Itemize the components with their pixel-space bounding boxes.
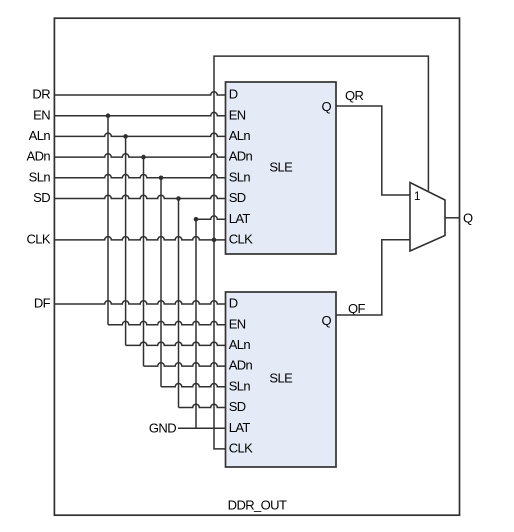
svg-text:GND: GND xyxy=(149,421,176,436)
svg-text:SLn: SLn xyxy=(29,169,51,184)
wire ADn to U2.ADn xyxy=(144,363,226,366)
wire EN to U1.EN xyxy=(54,112,225,115)
junction LAT branch xyxy=(194,217,199,222)
svg-text:EN: EN xyxy=(229,316,246,331)
svg-text:LAT: LAT xyxy=(229,420,251,435)
svg-text:D: D xyxy=(229,296,238,311)
svg-text:SLE: SLE xyxy=(269,160,293,175)
wire LAT to U1.LAT xyxy=(196,216,226,219)
wire ALn to U2.ALn xyxy=(126,342,226,345)
wire CLK vertical to U2.CLK xyxy=(214,240,226,449)
junction EN branch xyxy=(106,113,111,118)
svg-text:Q: Q xyxy=(463,210,473,225)
svg-text:SD: SD xyxy=(229,190,246,205)
SLE U2 (falling-edge latch block) xyxy=(226,292,337,467)
svg-text:EN: EN xyxy=(229,107,246,122)
svg-text:ALn: ALn xyxy=(29,128,51,143)
wire EN to U2.EN xyxy=(108,321,226,324)
svg-text:CLK: CLK xyxy=(27,232,51,247)
wire ALn vertical branch xyxy=(125,136,127,345)
svg-text:SLE: SLE xyxy=(269,371,293,386)
wire GND to U2.LAT xyxy=(178,427,226,429)
svg-text:CLK: CLK xyxy=(229,441,253,456)
junction CLK branch xyxy=(212,238,217,243)
svg-text:ADn: ADn xyxy=(229,149,253,164)
wire EN vertical branch xyxy=(107,116,109,325)
wire SD vertical branch xyxy=(178,199,180,408)
junction ADn branch xyxy=(141,155,146,160)
svg-text:Q: Q xyxy=(321,313,331,328)
svg-text:ALn: ALn xyxy=(229,337,251,352)
wire QF from U2.Q to mux input 0 xyxy=(336,240,410,315)
wire SD to U2.SD xyxy=(179,404,226,407)
DDR_OUT block boundary xyxy=(54,18,459,515)
wire SLn to U1.SLn xyxy=(54,175,225,178)
wire DF to U2.D xyxy=(54,301,225,304)
wire SLn to U2.SLn xyxy=(161,383,226,386)
svg-text:D: D xyxy=(229,87,238,102)
svg-text:Q: Q xyxy=(321,99,331,114)
svg-text:DF: DF xyxy=(34,296,51,311)
svg-text:CLK: CLK xyxy=(229,232,253,247)
svg-text:EN: EN xyxy=(33,107,50,122)
junction SD branch xyxy=(176,196,181,201)
svg-text:SD: SD xyxy=(229,399,246,414)
svg-text:ADn: ADn xyxy=(27,149,51,164)
svg-text:DR: DR xyxy=(32,87,50,102)
junction ALn branch xyxy=(123,134,128,139)
svg-text:SD: SD xyxy=(33,190,50,205)
junction SLn branch xyxy=(159,176,164,181)
wire SD to U1.SD xyxy=(54,195,225,198)
wire ADn to U1.ADn xyxy=(54,154,225,157)
SLE U1 (rising-edge latch block) xyxy=(226,82,337,254)
svg-text:QR: QR xyxy=(345,88,364,103)
wire LAT vertical branch xyxy=(195,219,197,428)
wire mux output to Q port xyxy=(445,217,460,219)
mux U3 (2:1 output multiplexer) xyxy=(410,183,445,252)
svg-text:SLn: SLn xyxy=(229,378,251,393)
svg-text:ALn: ALn xyxy=(229,128,251,143)
wire SLn vertical branch xyxy=(160,178,162,387)
svg-text:1: 1 xyxy=(414,191,420,203)
svg-text:QF: QF xyxy=(348,301,366,316)
wire CLK to mux select xyxy=(214,56,428,240)
wire CLK to U1.CLK xyxy=(54,237,225,240)
svg-text:SLn: SLn xyxy=(229,169,251,184)
wire DR to U1.D xyxy=(54,92,225,95)
wire QR from U1.Q to mux input 1 xyxy=(336,106,410,195)
svg-text:DDR_OUT: DDR_OUT xyxy=(228,497,287,512)
svg-text:LAT: LAT xyxy=(229,211,251,226)
wire ADn vertical branch xyxy=(143,157,145,366)
svg-text:ADn: ADn xyxy=(229,358,253,373)
wire ALn to U1.ALn xyxy=(54,133,225,136)
